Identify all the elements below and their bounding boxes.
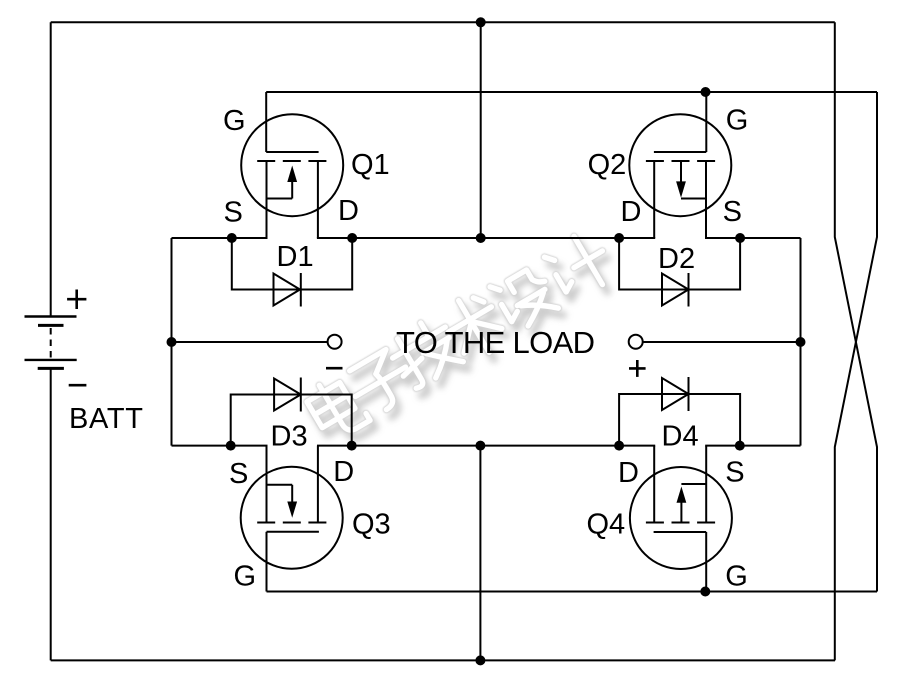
diode D2 xyxy=(619,238,740,307)
svg-text:D: D xyxy=(333,456,354,488)
junction dot top center xyxy=(476,17,486,27)
wire right vertical (load right) xyxy=(800,238,802,446)
svg-text:Q4: Q4 xyxy=(587,509,626,541)
svg-text:TO THE LOAD: TO THE LOAD xyxy=(396,325,595,360)
wire load right stub xyxy=(643,341,801,343)
wire top rail middle segment xyxy=(317,237,655,239)
transistor Q1 (top-left MOSFET) xyxy=(241,92,343,238)
svg-text:D3: D3 xyxy=(271,421,308,453)
load plus sign xyxy=(629,360,646,377)
battery minus sign xyxy=(69,384,87,387)
junction dot D4 cathode / Q4 S xyxy=(735,441,745,451)
svg-text:D: D xyxy=(618,457,639,489)
svg-text:S: S xyxy=(723,196,742,228)
transistor Q4 (bottom-right MOSFET) xyxy=(630,446,732,592)
wire left side (battery top) xyxy=(50,22,52,316)
battery BATT xyxy=(25,317,77,369)
load minus sign xyxy=(326,367,343,370)
junction dot Q2 gate xyxy=(701,87,711,97)
junction dot D2 anode / Q2 D xyxy=(614,233,624,243)
wire top rail right segment xyxy=(705,237,801,239)
svg-text:Q3: Q3 xyxy=(352,509,391,541)
wire top rail left segment xyxy=(172,237,268,239)
junction dot D1 cathode / Q1 D xyxy=(347,233,357,243)
svg-text:D4: D4 xyxy=(662,421,699,453)
junction dot D1 anode / Q1 S xyxy=(227,233,237,243)
transistor Q2 (top-right MOSFET) xyxy=(629,92,731,238)
wire center vertical top xyxy=(480,22,482,238)
svg-text:S: S xyxy=(224,197,243,229)
svg-text:D1: D1 xyxy=(277,241,314,273)
svg-text:D2: D2 xyxy=(658,243,695,275)
wire right crossover A (top outer to bottom gate bus) xyxy=(835,22,877,591)
wire load left stub xyxy=(172,341,328,343)
svg-text:G: G xyxy=(726,105,749,137)
junction dot center top rail xyxy=(476,233,486,243)
svg-text:D: D xyxy=(621,196,642,228)
wire left vertical (load left) xyxy=(171,238,173,446)
junction dot right load node xyxy=(796,337,806,347)
load terminal left (open circle) xyxy=(328,335,342,349)
transistor Q3 (bottom-left MOSFET) xyxy=(241,446,343,592)
svg-text:G: G xyxy=(725,561,748,593)
junction dot D3 anode / Q3 S xyxy=(226,441,236,451)
battery plus sign xyxy=(67,290,86,310)
junction dot Q4 gate xyxy=(700,587,710,597)
svg-text:Q1: Q1 xyxy=(351,149,390,181)
junction dot bottom center xyxy=(475,655,485,665)
svg-text:S: S xyxy=(725,457,744,489)
svg-text:S: S xyxy=(229,458,248,490)
wire center vertical bottom xyxy=(479,446,481,661)
wire top rail outer xyxy=(51,21,835,23)
svg-text:G: G xyxy=(234,561,257,593)
wire bottom rail left segment xyxy=(172,445,268,447)
wire right crossover B (top gate bus to bottom outer) xyxy=(835,92,877,660)
watermark 电子技术设计 xyxy=(303,228,622,451)
wire left side (battery bottom) xyxy=(50,369,52,661)
svg-text:BATT: BATT xyxy=(69,403,143,435)
wire gate bus bottom (Q3 G to right) xyxy=(267,591,878,593)
diode D1 xyxy=(232,238,352,307)
wire bottom rail right segment xyxy=(705,445,800,447)
svg-text:G: G xyxy=(223,105,246,137)
diode D4 xyxy=(619,377,740,446)
junction dot D3 cathode / Q3 D xyxy=(347,441,357,451)
wire bottom outer xyxy=(51,659,835,661)
junction dot left load node xyxy=(167,337,177,347)
diode D3 xyxy=(231,378,352,446)
svg-text:D: D xyxy=(338,195,359,227)
junction dot center bottom rail xyxy=(475,441,485,451)
junction dot D2 cathode / Q2 S xyxy=(735,233,745,243)
wire bottom rail middle segment xyxy=(317,445,655,447)
junction dot D4 anode / Q4 D xyxy=(614,441,624,451)
load terminal right (open circle) xyxy=(629,335,643,349)
svg-text:Q2: Q2 xyxy=(588,149,627,181)
wire gate bus top (Q1 G to right) xyxy=(266,91,877,93)
